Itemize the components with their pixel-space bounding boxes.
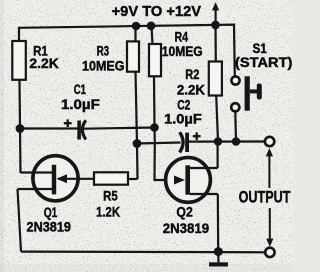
wire: rail to R3 top bbox=[134, 26, 136, 41]
switch S1 terminal (bottom) bbox=[231, 103, 239, 111]
wire: node A down to Q1 drain bbox=[19, 129, 22, 174]
C1 polarity plus sign bbox=[64, 119, 72, 127]
wire: +V top rail (R1 top to S1 top) bbox=[19, 25, 235, 77]
node: rail/R3 junction bbox=[132, 22, 141, 31]
wire: C1 negative plate to node C bbox=[84, 128, 155, 129]
C2 polarity plus sign bbox=[193, 132, 201, 140]
svg-text:+9V TO +12V: +9V TO +12V bbox=[112, 4, 202, 20]
wire: ground rail (bottom) bbox=[21, 251, 265, 254]
ground bbox=[209, 262, 228, 266]
+V supply arrow bbox=[212, 2, 219, 24]
capacitor C1 bbox=[77, 120, 86, 139]
svg-text:1.0µF: 1.0µF bbox=[164, 112, 202, 127]
node C: C1/R4/Q2 gate junction bbox=[150, 123, 159, 132]
svg-text:2.2K: 2.2K bbox=[29, 56, 59, 71]
wire: Q2 source lead bbox=[190, 193, 218, 195]
svg-text:C2: C2 bbox=[177, 98, 190, 113]
wire: rail to R4 top bbox=[152, 26, 153, 44]
wire: Q2 drain up to output node bbox=[217, 142, 219, 169]
svg-text:Q1: Q1 bbox=[44, 204, 58, 220]
wire: node A to C1 positive plate bbox=[20, 127, 78, 129]
wire: Q1 drain lead bbox=[21, 171, 53, 173]
svg-text:Q2: Q2 bbox=[176, 203, 193, 219]
svg-text:R2: R2 bbox=[185, 67, 199, 82]
svg-text:2N3819: 2N3819 bbox=[27, 219, 72, 235]
wire: Q2 drain lead bbox=[190, 167, 218, 169]
wire: Q1 source lead bbox=[18, 188, 53, 190]
node: C2/R2/Q2 drain junction bbox=[214, 137, 223, 146]
wire: node B to C2 negative plate bbox=[137, 143, 181, 144]
capacitor C2 bbox=[180, 132, 189, 152]
wire: rail to R2 top bbox=[214, 25, 217, 62]
switch S1 pushbutton actuator bbox=[245, 76, 262, 110]
svg-text:2.2K: 2.2K bbox=[177, 83, 205, 98]
wire: R4 bottom through node C down to Q2 gate bbox=[154, 76, 184, 180]
Q2 gate arrowhead bbox=[174, 176, 185, 185]
node A: R1/C1/Q1 drain junction bbox=[16, 124, 25, 133]
wire: R2 bottom to Q2 drain node bbox=[216, 96, 218, 142]
node B: C2/R3/R5 junction bbox=[133, 139, 142, 148]
svg-text:10MEG: 10MEG bbox=[162, 44, 203, 59]
Q1 gate arrow bbox=[57, 174, 95, 183]
svg-text:(START): (START) bbox=[235, 55, 292, 70]
wire: S1 bottom terminal to output node bbox=[234, 111, 237, 141]
svg-text:R5: R5 bbox=[103, 188, 118, 204]
resistor R4 bbox=[149, 44, 161, 76]
switch S1 terminal (top) bbox=[231, 76, 239, 84]
output up arrow bbox=[266, 148, 273, 188]
resistor R3 bbox=[127, 41, 139, 71]
output terminal (bottom) bbox=[265, 248, 274, 257]
svg-text:R3: R3 bbox=[97, 44, 110, 59]
node: rail/R4 junction bbox=[147, 22, 156, 31]
transistor Q1 (JFET body) bbox=[33, 156, 78, 201]
wire: Q2 source down to ground rail bbox=[217, 194, 220, 252]
wire: ground stub bbox=[217, 252, 219, 263]
svg-text:2N3819: 2N3819 bbox=[163, 220, 210, 236]
wire: Q1 source down to ground rail bbox=[18, 189, 22, 252]
resistor R5 bbox=[94, 172, 128, 184]
resistor R1 bbox=[12, 41, 25, 80]
output down arrow bbox=[266, 208, 273, 247]
svg-text:1.0µF: 1.0µF bbox=[61, 97, 100, 112]
wire: R5 right lead to R3/C2 node line bbox=[128, 178, 138, 180]
svg-text:S1: S1 bbox=[253, 41, 268, 56]
wire: R1 bottom to node A bbox=[18, 80, 21, 129]
svg-text:OUTPUT: OUTPUT bbox=[239, 188, 291, 207]
svg-text:C1: C1 bbox=[74, 82, 87, 97]
wire: C2 positive plate to output node bbox=[189, 140, 265, 142]
svg-text:10MEG: 10MEG bbox=[82, 59, 125, 74]
node: ground junction bbox=[214, 247, 223, 256]
resistor R2 bbox=[209, 62, 222, 96]
node: S1/output junction bbox=[232, 137, 241, 146]
svg-text:R4: R4 bbox=[175, 29, 189, 44]
output terminal (top) bbox=[265, 137, 274, 146]
wire: R3 bottom through node B down to R5 bbox=[136, 72, 138, 179]
transistor Q2 (JFET body) bbox=[166, 158, 211, 203]
node: rail/R2 junction bbox=[211, 21, 220, 30]
svg-text:1.2K: 1.2K bbox=[96, 203, 120, 219]
